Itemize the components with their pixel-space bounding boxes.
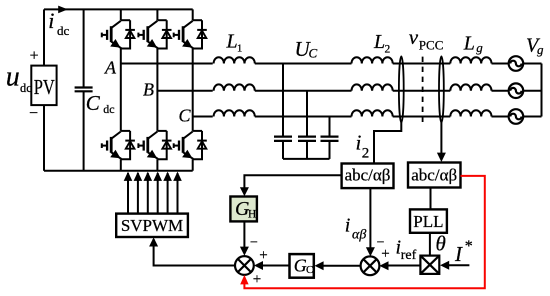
wire: I* input <box>448 264 469 266</box>
svg-text:L: L <box>373 31 385 53</box>
svg-text:2: 2 <box>385 43 391 55</box>
wire: PV top lead <box>43 9 45 65</box>
wire: 6 gate signal lines with arrows <box>128 173 178 214</box>
svg-text:1: 1 <box>237 43 242 54</box>
capacitor C_dc plates <box>75 88 93 92</box>
summing junction 2 <box>361 256 380 275</box>
svg-text:I: I <box>454 242 463 266</box>
capacitor C_dc top lead <box>83 9 85 87</box>
svg-text:2: 2 <box>362 145 370 161</box>
transistor Q4 (leg B lower IGBT + diode) <box>138 131 171 159</box>
wire: phase B L1-L2 segment <box>255 90 352 92</box>
inductor L1 phase C <box>214 110 255 116</box>
inductor Lg phase C <box>450 110 491 116</box>
svg-text:PLL: PLL <box>413 212 443 231</box>
transistor Q2 (leg A lower IGBT + diode) <box>102 131 135 159</box>
wire: PV bottom lead <box>43 105 45 171</box>
svg-text:dc: dc <box>20 81 32 95</box>
wire: junction2 to GC <box>324 265 361 267</box>
wire: abc1 to GH <box>244 175 341 188</box>
wire: leg C verticals <box>192 9 194 170</box>
summing junction 1 <box>235 256 254 275</box>
block GC (current controller) <box>290 254 314 278</box>
block PLL <box>410 209 447 232</box>
wire: DC- bottom rail <box>44 170 193 172</box>
svg-text:*: * <box>465 238 473 255</box>
svg-text:αβ: αβ <box>352 227 366 242</box>
wire: phase C L1-L2 segment <box>255 116 352 118</box>
svg-text:ref: ref <box>401 248 417 263</box>
svg-text:G: G <box>294 256 307 276</box>
svg-text:L: L <box>463 33 475 55</box>
wire: phase C grid segment <box>492 116 542 118</box>
inductor L2 phase C <box>352 110 393 116</box>
capacitor Cf phase C lead <box>329 117 331 137</box>
arrow red into junction1 bottom <box>240 275 248 285</box>
source Vg phase A <box>509 56 524 71</box>
capacitor Cf phase C plates <box>321 137 339 141</box>
svg-text:dc: dc <box>57 23 70 38</box>
arrow marker i_dc on top rail <box>58 6 68 14</box>
inductor Lg phase A <box>450 57 491 63</box>
wire: i2 measurement tap <box>374 122 401 164</box>
capacitor Cf phase A lead <box>282 64 284 137</box>
inductor L1 phase A <box>214 57 255 63</box>
svg-text:H: H <box>248 209 256 221</box>
arrow into summing junction 2 <box>366 247 375 256</box>
capacitor Cf phase B lead <box>306 91 308 137</box>
block GH (harmonic compensator) <box>230 197 257 222</box>
svg-text:C: C <box>86 91 101 115</box>
arrow into abc/ab block 2 <box>437 153 446 162</box>
svg-text:g: g <box>537 42 544 57</box>
transistor Q3 (leg B upper IGBT + diode) <box>138 20 171 48</box>
block abc/ab 2 (voltage transform) <box>408 163 461 188</box>
wire: vPCC measurement tap <box>440 122 442 154</box>
arrow into GH <box>240 187 249 196</box>
svg-text:g: g <box>476 40 483 55</box>
svg-text:C: C <box>179 106 192 126</box>
svg-text:C: C <box>306 264 313 276</box>
wire: GC output to junction1 <box>263 265 290 267</box>
svg-text:A: A <box>104 58 117 78</box>
wire: phase B PCC segment <box>393 90 451 92</box>
multiplier block <box>420 256 439 274</box>
svg-text:B: B <box>143 80 154 100</box>
inductor Lg phase B <box>450 84 491 90</box>
svg-text:dc: dc <box>103 102 114 116</box>
wire: grid neutral vertical <box>541 64 543 117</box>
wire: abc1 down to junction 2 (i_alphabeta) <box>369 188 371 248</box>
wire: phase A PCC segment <box>393 63 451 65</box>
wire: GH output down <box>243 221 245 247</box>
transistor Q6 (leg C lower IGBT + diode) <box>174 131 207 159</box>
svg-text:+: + <box>253 272 261 288</box>
inductor L1 phase B <box>214 84 255 90</box>
arrow into GC right side <box>315 261 324 270</box>
inductor L2 phase A <box>352 57 393 63</box>
capacitor Cf phase A plates <box>274 137 292 141</box>
svg-text:L: L <box>226 31 238 53</box>
svg-text:+: + <box>259 248 267 264</box>
svg-text:θ: θ <box>436 232 446 256</box>
arrow into SVPWM bottom <box>149 237 158 246</box>
svg-text:−: − <box>29 105 38 122</box>
wire: capacitor bank common rail <box>283 158 330 160</box>
arrow into junction2 right side <box>379 261 388 270</box>
wire: phase A L1-L2 segment <box>255 63 352 65</box>
wire: phase A line <box>121 63 213 65</box>
wire: phase B grid segment <box>492 90 542 92</box>
wire: junction1 output to SVPWM <box>154 239 235 266</box>
wire: phase A grid segment <box>492 63 542 65</box>
svg-text:abc/αβ: abc/αβ <box>345 166 391 185</box>
wire: phase B line <box>157 90 212 92</box>
transistor Q1 (leg A upper IGBT + diode) <box>102 20 135 48</box>
node: PCC dashed boundary line <box>422 57 424 124</box>
wire: abc2 down to PLL <box>430 188 432 210</box>
svg-text:u: u <box>6 62 20 93</box>
arrow into multiplier right <box>440 261 449 270</box>
svg-text:PCC: PCC <box>419 38 444 53</box>
arrow into summing junction 1 <box>240 247 249 256</box>
inductor L2 phase B <box>352 84 393 90</box>
svg-text:i: i <box>48 8 54 33</box>
block SVPWM <box>116 214 188 237</box>
wire: leg A verticals <box>120 9 122 170</box>
transistor Q5 (leg C upper IGBT + diode) <box>174 20 207 48</box>
svg-text:i: i <box>345 215 351 237</box>
PV source box <box>31 66 56 106</box>
node: measurement oval 2 at PCC right <box>439 56 444 122</box>
svg-text:−: − <box>250 236 258 251</box>
block abc/ab 1 (current transform) <box>342 164 394 189</box>
capacitor C_dc bottom lead <box>83 91 85 170</box>
capacitor Cf phase B plates <box>298 137 316 141</box>
svg-text:+: + <box>381 246 389 262</box>
node: measurement oval 1 at PCC left <box>399 56 404 122</box>
source Vg phase B <box>509 83 524 98</box>
wire: multiplier output to junction2 <box>389 265 421 267</box>
wire: red feedback path <box>244 176 484 288</box>
wire: leg B verticals <box>156 9 158 170</box>
svg-text:abc/αβ: abc/αβ <box>411 166 457 185</box>
wire: PLL output theta to multiplier <box>429 233 431 256</box>
svg-text:+: + <box>30 47 39 64</box>
svg-text:C: C <box>309 45 318 60</box>
svg-text:SVPWM: SVPWM <box>121 216 183 235</box>
svg-text:i: i <box>356 131 362 155</box>
wire: phase C PCC segment <box>393 116 451 118</box>
svg-text:v: v <box>409 25 419 49</box>
wire: DC+ top rail <box>44 8 193 10</box>
source Vg phase C <box>509 109 524 124</box>
wire: phase C line <box>193 116 213 118</box>
svg-text:PV: PV <box>34 75 55 99</box>
arrow into junction1 right side <box>254 261 263 270</box>
